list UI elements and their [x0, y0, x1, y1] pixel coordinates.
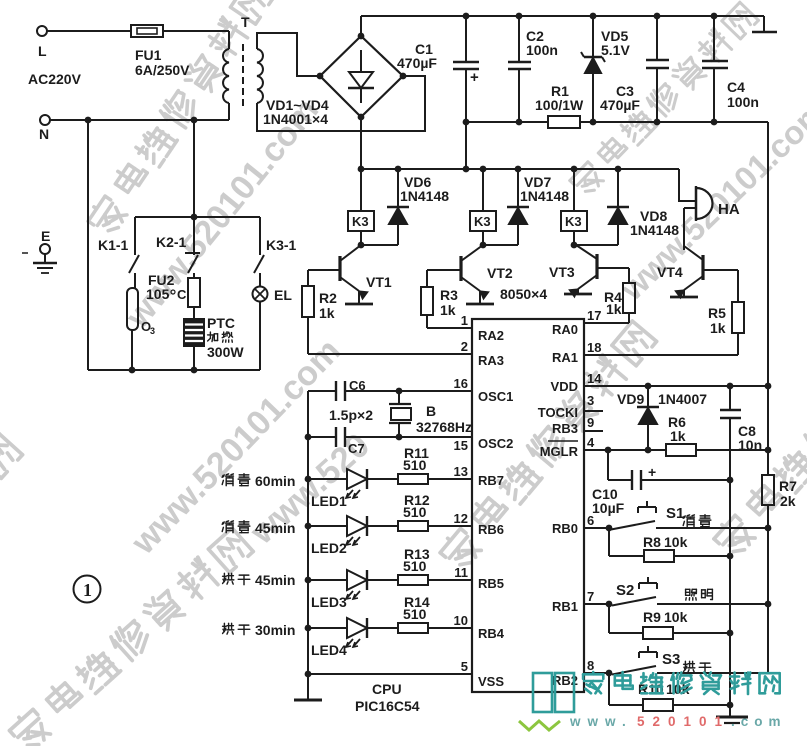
svg-text:8050×4: 8050×4 [500, 286, 547, 302]
svg-text:RB4: RB4 [478, 626, 505, 641]
svg-text:N: N [39, 126, 49, 142]
svg-text:13: 13 [454, 464, 468, 479]
svg-text:11: 11 [454, 565, 468, 580]
svg-text:2k: 2k [780, 493, 796, 509]
svg-text:R2: R2 [319, 290, 337, 306]
svg-text:105: 105 [146, 286, 170, 302]
svg-text:3: 3 [150, 326, 155, 336]
svg-text:FU1: FU1 [135, 47, 162, 63]
svg-text:1k: 1k [319, 305, 335, 321]
svg-text:PIC16C54: PIC16C54 [355, 698, 420, 714]
svg-text:S2: S2 [616, 582, 634, 599]
svg-text:5.1V: 5.1V [601, 42, 630, 58]
svg-text:30min: 30min [255, 622, 295, 638]
svg-text:10k: 10k [664, 609, 688, 625]
svg-text:OSC2: OSC2 [478, 436, 513, 451]
svg-text:VSS: VSS [478, 674, 504, 689]
svg-text:HA: HA [718, 201, 740, 218]
svg-text:510: 510 [403, 504, 427, 520]
svg-text:C7: C7 [348, 441, 365, 456]
svg-text:www.: www. [569, 714, 633, 729]
svg-text:LED3: LED3 [311, 594, 347, 610]
svg-text:7: 7 [587, 589, 594, 604]
svg-text:EL: EL [274, 287, 292, 303]
svg-text:RA2: RA2 [478, 328, 504, 343]
svg-text:RB0: RB0 [552, 521, 578, 536]
svg-text:520101: 520101 [637, 714, 730, 729]
svg-text:R8: R8 [643, 534, 661, 550]
svg-text:45min: 45min [255, 572, 295, 588]
svg-text:K3: K3 [565, 214, 582, 229]
svg-text:1k: 1k [440, 302, 456, 318]
svg-text:510: 510 [403, 558, 427, 574]
svg-text:C: C [177, 287, 187, 302]
svg-text:R5: R5 [708, 305, 726, 321]
svg-text:10: 10 [454, 613, 468, 628]
svg-text:100n: 100n [727, 94, 759, 110]
svg-text:T: T [241, 14, 250, 30]
svg-text:E: E [41, 228, 50, 244]
svg-text:VT2: VT2 [487, 265, 513, 281]
svg-text:PTC: PTC [207, 315, 235, 331]
svg-text:4: 4 [587, 435, 595, 450]
svg-text:5: 5 [461, 659, 468, 674]
svg-text:9: 9 [587, 415, 594, 430]
svg-text:+: + [470, 69, 479, 86]
svg-text:510: 510 [403, 457, 427, 473]
svg-text:R3: R3 [440, 287, 458, 303]
svg-text:K2-1: K2-1 [156, 234, 187, 250]
svg-text:RA0: RA0 [552, 322, 578, 337]
svg-text:1N4001×4: 1N4001×4 [263, 111, 328, 127]
svg-text:VDD: VDD [551, 379, 578, 394]
svg-text:VT1: VT1 [366, 274, 392, 290]
svg-text:L: L [38, 43, 47, 59]
svg-text:S3: S3 [662, 651, 680, 668]
svg-text:16: 16 [454, 376, 468, 391]
svg-text:470µF: 470µF [600, 97, 640, 113]
svg-text:RB5: RB5 [478, 576, 504, 591]
svg-text:K3: K3 [352, 214, 369, 229]
svg-text:MGLR: MGLR [540, 444, 579, 459]
svg-text:CPU: CPU [372, 681, 402, 697]
svg-text:18: 18 [587, 340, 601, 355]
svg-text:R7: R7 [779, 478, 797, 494]
svg-text:RB6: RB6 [478, 522, 504, 537]
svg-text:1N4148: 1N4148 [630, 222, 679, 238]
svg-text:RB3: RB3 [552, 421, 578, 436]
svg-text:B: B [426, 403, 436, 419]
svg-text:470µF: 470µF [397, 55, 437, 71]
svg-text:300W: 300W [207, 344, 244, 360]
svg-text:1N4148: 1N4148 [400, 188, 449, 204]
svg-text:60min: 60min [255, 473, 295, 489]
svg-text:www.520101.com: www.520101.com [124, 332, 348, 563]
svg-text:VT3: VT3 [549, 264, 575, 280]
svg-text:100/1W: 100/1W [535, 97, 584, 113]
svg-text:+: + [648, 464, 656, 480]
svg-text:6A/250V: 6A/250V [135, 62, 190, 78]
svg-text:S1: S1 [666, 505, 684, 522]
svg-text:12: 12 [454, 511, 468, 526]
svg-text:LED4: LED4 [311, 642, 347, 658]
svg-text:32768Hz: 32768Hz [416, 419, 472, 435]
svg-text:VT4: VT4 [657, 264, 683, 280]
svg-text:1k: 1k [670, 428, 686, 444]
svg-text:10n: 10n [738, 437, 762, 453]
svg-text:10k: 10k [664, 534, 688, 550]
svg-text:LED1: LED1 [311, 493, 347, 509]
svg-text:K3-1: K3-1 [266, 237, 297, 253]
svg-text:C4: C4 [727, 79, 745, 95]
svg-text:C6: C6 [349, 378, 366, 393]
svg-text:10µF: 10µF [592, 500, 625, 516]
svg-text:OSC1: OSC1 [478, 389, 513, 404]
svg-text:RA1: RA1 [552, 350, 578, 365]
svg-text:K3: K3 [474, 214, 491, 229]
svg-text:K1-1: K1-1 [98, 237, 129, 253]
svg-text:100n: 100n [526, 42, 558, 58]
svg-text:VD9: VD9 [617, 391, 644, 407]
svg-text:1N4148: 1N4148 [520, 188, 569, 204]
svg-text:15: 15 [454, 438, 468, 453]
svg-text:R9: R9 [643, 609, 661, 625]
svg-text:45min: 45min [255, 520, 295, 536]
svg-text:RB7: RB7 [478, 473, 504, 488]
svg-text:1: 1 [83, 580, 92, 600]
svg-text:17: 17 [587, 308, 601, 323]
svg-text:2: 2 [461, 339, 468, 354]
svg-text:.com: .com [731, 714, 787, 729]
svg-text:510: 510 [403, 606, 427, 622]
svg-text:RB1: RB1 [552, 599, 578, 614]
svg-text:RA3: RA3 [478, 353, 504, 368]
svg-text:1: 1 [461, 313, 468, 328]
svg-text:1N4007: 1N4007 [658, 391, 707, 407]
svg-text:TOCKI: TOCKI [538, 405, 578, 420]
svg-text:1k: 1k [710, 320, 726, 336]
svg-text:14: 14 [587, 371, 602, 386]
svg-text:1.5p×2: 1.5p×2 [329, 407, 373, 423]
svg-text:3: 3 [587, 393, 594, 408]
svg-text:LED2: LED2 [311, 540, 347, 556]
svg-text:AC220V: AC220V [28, 71, 82, 87]
svg-text:1k: 1k [606, 301, 622, 317]
